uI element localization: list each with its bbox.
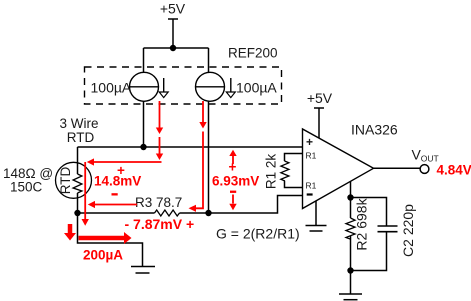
svg-text:R1: R1 xyxy=(306,150,317,160)
svg-text:RTD: RTD xyxy=(58,167,73,195)
svg-text:4.84V: 4.84V xyxy=(437,162,471,177)
svg-text:R1 2k: R1 2k xyxy=(264,154,279,190)
red current arrow under I1 xyxy=(156,101,163,160)
red current arrow through RTD xyxy=(82,162,89,226)
ground return wire bottom left xyxy=(78,213,143,267)
power +5V op-amp xyxy=(307,90,333,138)
svg-text:100µA: 100µA xyxy=(236,79,277,95)
wire node C to -IN xyxy=(209,196,303,214)
wire node D to C2 top xyxy=(351,198,387,227)
red current arrow under I2 xyxy=(189,101,207,212)
wire I2 bottom to node C xyxy=(208,101,210,213)
ground R2 xyxy=(339,271,362,300)
svg-text:148Ω @: 148Ω @ xyxy=(3,166,53,181)
label 3 Wire RTD xyxy=(59,116,98,145)
svg-text:RTD: RTD xyxy=(67,130,95,145)
svg-text:+5V: +5V xyxy=(307,90,333,106)
node C junction xyxy=(205,210,211,216)
red thick 200uA arrows xyxy=(64,224,132,244)
svg-text:150C: 150C xyxy=(10,180,43,195)
svg-text:R1: R1 xyxy=(306,180,317,190)
svg-text:C2 220p: C2 220p xyxy=(400,204,416,257)
svg-text:3 Wire: 3 Wire xyxy=(59,116,98,131)
ground op-amp xyxy=(306,201,327,232)
wire bottom rail left xyxy=(78,212,155,214)
node E bottom junction xyxy=(347,267,353,273)
node B RTD bottom xyxy=(74,210,80,216)
wire +5V down to rail xyxy=(172,19,174,48)
op-amp U1 INA326 xyxy=(303,129,374,209)
svg-text:+5V: +5V xyxy=(160,1,186,17)
wire top rail xyxy=(144,47,209,49)
svg-text:REF200: REF200 xyxy=(228,46,278,61)
svg-text:G = 2(R2/R1): G = 2(R2/R1) xyxy=(216,226,300,242)
wire output xyxy=(373,167,420,169)
label VOUT xyxy=(412,147,439,164)
svg-text:R2 698k: R2 698k xyxy=(354,197,370,250)
current source I2 100uA xyxy=(196,72,236,101)
wire rail to I2 top xyxy=(208,48,210,73)
wire top rail to +IN xyxy=(78,146,303,148)
terminal VOUT open circle xyxy=(420,165,429,174)
RTD sensor xyxy=(56,147,92,213)
wire rail to I1 top xyxy=(143,48,145,73)
resistor R2 698k xyxy=(346,197,370,270)
wire I1 bottom to node A xyxy=(143,101,145,147)
svg-text:14.8mV: 14.8mV xyxy=(94,174,141,189)
svg-text:6.93mV: 6.93mV xyxy=(212,174,259,189)
node A junction xyxy=(140,144,146,150)
node +5V rail junction xyxy=(170,45,176,51)
node D junction xyxy=(347,194,353,200)
capacitor C2 220p xyxy=(351,204,417,271)
svg-text:- 7.87mV +: - 7.87mV + xyxy=(125,216,195,232)
label 148ohm xyxy=(3,166,53,195)
resistor R3 78.7 xyxy=(135,195,182,216)
svg-text:+: + xyxy=(229,160,237,175)
wire feedback node D xyxy=(350,181,352,198)
power +5V left label xyxy=(160,1,186,20)
svg-text:100µA: 100µA xyxy=(91,79,132,95)
svg-text:+: + xyxy=(306,135,313,149)
svg-text:200µA: 200µA xyxy=(83,247,123,262)
REF200 dashed box xyxy=(85,67,282,104)
resistor R1 2k with bracket xyxy=(264,154,303,190)
wire R3 to node C xyxy=(180,212,209,214)
red measurement 14.8mV xyxy=(87,158,162,208)
ground left xyxy=(131,267,155,274)
red measurement 6.93mV xyxy=(212,150,259,210)
current source I1 100uA xyxy=(130,72,169,101)
svg-text:INA326: INA326 xyxy=(351,122,398,138)
svg-text:R3 78.7: R3 78.7 xyxy=(135,195,182,210)
